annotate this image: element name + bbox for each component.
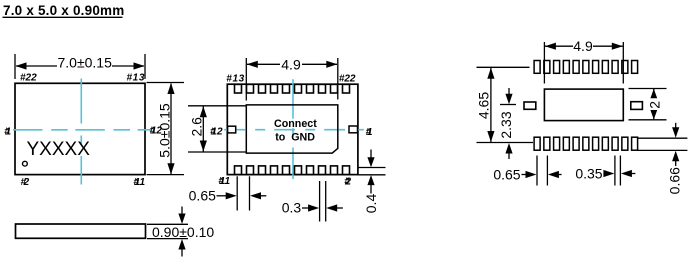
package side view outline: [16, 224, 146, 238]
svg-text:YXXXX: YXXXX: [27, 139, 91, 160]
side pad #1 bottom view: [349, 126, 358, 133]
svg-text:#1: #1: [366, 127, 373, 138]
title 7.0 x 5.0 x 0.90mm: [3, 3, 125, 18]
dimension 0.66 land pattern: [638, 123, 688, 166]
svg-text:0.3: 0.3: [282, 200, 302, 216]
dimension 0.90±0.10 side view: [147, 207, 188, 257]
svg-text:#12: #12: [210, 126, 223, 137]
svg-text:2.33: 2.33: [498, 111, 514, 138]
svg-text:0.65: 0.65: [189, 188, 216, 204]
svg-text:#22: #22: [339, 73, 356, 84]
dimension 4.9 land pattern: [544, 42, 623, 84]
svg-text:#1: #1: [4, 127, 11, 138]
svg-text:#22: #22: [20, 73, 37, 84]
svg-text:#11: #11: [133, 177, 145, 188]
dimension 4.65 land pattern: [477, 67, 534, 142]
svg-text:7.0 x 5.0 x 0.90mm: 7.0 x 5.0 x 0.90mm: [3, 3, 124, 18]
centerline vertical top view: [80, 79, 82, 185]
svg-text:to GND: to GND: [275, 131, 315, 143]
centerline vertical bottom view: [292, 79, 294, 179]
land pattern bottom pad row: [534, 137, 638, 150]
svg-text:0.90±0.10: 0.90±0.10: [152, 224, 214, 240]
svg-text:4.9: 4.9: [281, 56, 301, 72]
svg-text:4.65: 4.65: [476, 92, 492, 119]
svg-text:0.35: 0.35: [575, 165, 602, 181]
dimension 5.0±0.15 top view: [147, 83, 185, 175]
centerline horizontal top view: [13, 129, 152, 131]
dimension 2 land pattern: [629, 89, 667, 120]
svg-text:2: 2: [647, 101, 663, 109]
centerline horizontal bottom view: [224, 129, 364, 131]
dimension 0.4 bottom view: [358, 150, 385, 194]
svg-text:0.4: 0.4: [363, 194, 379, 214]
svg-text:#11: #11: [218, 176, 230, 187]
dimension 0.35 land pattern: [603, 156, 635, 186]
bottom pad row bottom view: [235, 166, 350, 175]
package top view outline: [15, 83, 145, 174]
svg-text:0.65: 0.65: [493, 166, 520, 182]
land pattern top pad row: [534, 61, 638, 74]
svg-text:0.66: 0.66: [667, 167, 683, 194]
dimension 7.0±0.15 top view: [15, 54, 145, 79]
dimension 2.6 bottom view: [188, 106, 246, 152]
svg-text:#13: #13: [226, 73, 245, 84]
dimension 0.65 land pattern: [522, 156, 562, 186]
top pad row bottom view: [235, 84, 350, 93]
svg-text:5.0±0.15: 5.0±0.15: [156, 103, 172, 158]
land pattern center pad: [544, 89, 623, 121]
dimension 0.3 bottom view: [302, 181, 343, 222]
dimension 4.9 bottom view: [246, 58, 337, 101]
svg-text:#2: #2: [21, 177, 30, 188]
svg-text:4.9: 4.9: [573, 38, 593, 54]
pin 1 indicator circle: [23, 161, 28, 166]
package bottom view outline: [227, 84, 358, 174]
dimension 0.65 bottom view: [217, 176, 267, 210]
svg-text:2.6: 2.6: [188, 117, 204, 137]
svg-text:#13: #13: [127, 73, 146, 84]
svg-text:7.0±0.15: 7.0±0.15: [57, 55, 112, 71]
ground pad with chamfer: [246, 105, 337, 153]
svg-text:#2: #2: [344, 177, 351, 188]
land pattern left side pad: [524, 102, 536, 109]
dimension 2.33 land pattern: [500, 88, 516, 159]
side pad #12 bottom view: [228, 126, 236, 133]
land pattern right side pad: [631, 102, 643, 110]
svg-text:Connect: Connect: [274, 118, 317, 130]
